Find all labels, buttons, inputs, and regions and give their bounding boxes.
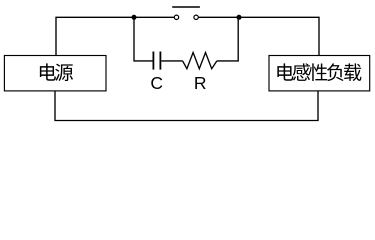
node A (left junction dot)	[132, 15, 137, 20]
wire: bottom bus	[55, 91, 318, 121]
resistor R	[183, 53, 217, 69]
box: power source 电源	[4, 56, 106, 91]
wire: top bus left segment	[56, 17, 174, 55]
wire: top bus right segment	[198, 17, 319, 55]
capacitor C	[153, 52, 160, 70]
box: inductive load 电感性负载	[269, 56, 370, 91]
svg-text:C: C	[150, 73, 163, 93]
label 电源	[40, 63, 56, 80]
switch S (open contacts)	[172, 7, 200, 20]
wire: C to R	[161, 60, 182, 62]
svg-text:R: R	[194, 73, 207, 93]
label 电感性负载	[277, 63, 293, 80]
wire: R to right branch riser	[217, 17, 238, 61]
node B (right junction dot)	[237, 15, 242, 20]
wire: snubber branch left drop	[134, 17, 153, 61]
